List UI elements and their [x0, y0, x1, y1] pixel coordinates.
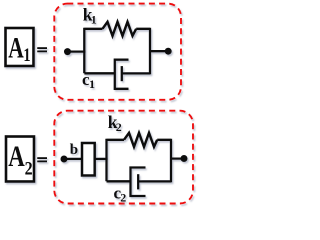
- svg-text:1: 1: [91, 12, 97, 26]
- svg-text:A: A: [8, 140, 25, 173]
- svg-text:A: A: [8, 31, 24, 64]
- svg-text:2: 2: [120, 191, 126, 205]
- svg-text:2: 2: [25, 158, 33, 179]
- svg-text:1: 1: [23, 45, 30, 66]
- svg-text:1: 1: [89, 77, 95, 91]
- svg-text:2: 2: [116, 120, 122, 134]
- svg-text:b: b: [70, 142, 78, 158]
